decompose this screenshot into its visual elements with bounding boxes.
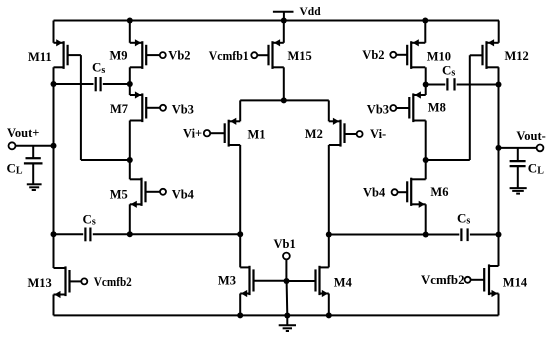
svg-text:Vcmfb2: Vcmfb2 xyxy=(94,275,132,289)
terminal Vcmfb1 xyxy=(251,52,268,58)
svg-text:Vdd: Vdd xyxy=(300,6,322,18)
transistor M7 xyxy=(130,91,146,122)
svg-text:M5: M5 xyxy=(110,188,128,202)
wire: Vb1 node down to rail xyxy=(286,281,289,315)
junction M6 source / Cs bottom line xyxy=(423,232,429,238)
wire: Cs top-right line xyxy=(426,84,499,86)
capacitor Cs (bottom left) xyxy=(85,228,90,242)
wire: M12 gate to cascode node B xyxy=(426,55,483,160)
svg-text:M11: M11 xyxy=(28,50,52,64)
transistor M6 xyxy=(407,178,426,208)
terminal Vcmfb2 (right) xyxy=(465,277,485,283)
wire: M1 drain up to node xyxy=(239,100,241,121)
wire: M15 drain to tail node xyxy=(283,67,285,100)
wire: M5 source down to Cs line xyxy=(129,204,131,234)
junction M2-M4 / Cs bottom-right line xyxy=(326,232,332,238)
transistor M14 xyxy=(484,264,498,297)
svg-text:Vout+: Vout+ xyxy=(7,126,39,140)
terminal Vb3 (left) xyxy=(146,105,166,111)
transistor M3 xyxy=(240,266,253,297)
transistor M10 xyxy=(407,39,425,69)
svg-text:M3: M3 xyxy=(218,274,236,288)
svg-text:M15: M15 xyxy=(288,49,312,63)
wire: M8 drain down to node B xyxy=(425,121,427,180)
wire: Cs top-left line xyxy=(54,83,130,85)
ground (left CL) xyxy=(27,184,42,190)
junction node B (M8/M6) xyxy=(423,157,429,163)
wire: Cs bottom-left line xyxy=(54,233,241,235)
terminal Vb4 (left) xyxy=(146,189,167,195)
transistor M12 xyxy=(483,39,499,69)
wire: M11 gate to cascode node A xyxy=(68,55,130,160)
capacitor Cs (bottom right) xyxy=(461,228,467,241)
terminal Vi+ xyxy=(204,130,225,136)
terminal Vb2 (left) xyxy=(146,52,166,58)
junction M10 source / rail xyxy=(422,18,428,24)
svg-text:Vb4: Vb4 xyxy=(172,187,195,201)
junction left column / Cs bottom line xyxy=(51,231,57,237)
svg-text:M10: M10 xyxy=(427,49,451,63)
wire: left column upper (M11 source to rail) xyxy=(53,21,55,43)
terminal Vout+ xyxy=(9,142,54,149)
wire: M2 source down to M4 xyxy=(328,145,330,267)
wire: M3 source to rail xyxy=(239,294,241,316)
transistor M11 xyxy=(54,39,68,69)
svg-text:M1: M1 xyxy=(248,128,266,142)
svg-text:M2: M2 xyxy=(305,127,323,141)
wire: M4 source to rail xyxy=(328,294,330,316)
svg-text:M9: M9 xyxy=(110,48,128,62)
junction Vb1 / M3-M4 gates xyxy=(284,278,290,284)
transistor M13 xyxy=(54,266,70,298)
terminal Vi- xyxy=(345,131,363,137)
wire: M10 source to rail xyxy=(424,21,426,43)
wire: right column lower (M14 source to rail) xyxy=(498,294,500,316)
junction left column / Cs top line xyxy=(51,81,57,87)
wire: M4 gate to Vb1 node xyxy=(287,280,316,282)
junction left column / Vout+ xyxy=(51,143,57,149)
svg-text:Vb2: Vb2 xyxy=(168,48,190,62)
terminal Vb3 (right) xyxy=(390,105,409,111)
junction M4 source / rail xyxy=(326,312,332,318)
wire: input pair top node xyxy=(240,99,329,101)
svg-text:Vb2: Vb2 xyxy=(362,48,384,62)
svg-text:M14: M14 xyxy=(503,276,528,290)
wire: Vdd top rail xyxy=(54,20,500,22)
junction node A (M7/M5) xyxy=(127,157,133,163)
terminal Vb2 (right) xyxy=(390,52,407,58)
wire: M7 drain down to node A xyxy=(129,121,131,180)
ground (right CL) xyxy=(510,188,527,194)
svg-text:Vi+: Vi+ xyxy=(183,126,202,140)
terminal Vcmfb2 (left) xyxy=(70,278,88,284)
transistor M9 xyxy=(130,39,146,69)
junction right column / Vout- xyxy=(496,145,502,151)
wire: M3 gate to Vb1 node xyxy=(254,280,287,282)
junction M15 drain / input pair node xyxy=(281,97,287,103)
wire: right column (M12 drain down to M14) xyxy=(498,67,500,266)
junction Vdd stub / rail xyxy=(281,18,287,24)
junction M5 source / Cs bottom line xyxy=(127,231,133,237)
wire: M9 source to rail xyxy=(129,21,131,43)
terminal Vb4 (right) xyxy=(392,189,408,195)
junction M10 drain / Cs line xyxy=(423,82,429,88)
svg-text:Vb4: Vb4 xyxy=(363,186,386,200)
ground (center) xyxy=(279,315,296,331)
capacitor CL (left) xyxy=(24,146,43,184)
wire: M10 drain to node xyxy=(425,67,427,95)
svg-text:M6: M6 xyxy=(430,185,448,199)
junction M9 drain / Cs line xyxy=(127,81,133,87)
junction M9 source / rail xyxy=(127,18,133,24)
svg-text:M8: M8 xyxy=(428,101,446,115)
terminal Vb1 xyxy=(283,253,290,281)
wire: left column (M11 drain down to M13) xyxy=(53,67,55,268)
svg-text:Vcmfb2: Vcmfb2 xyxy=(421,273,465,287)
transistor M4 xyxy=(316,266,329,297)
svg-text:Vb1: Vb1 xyxy=(274,237,296,251)
transistor M5 xyxy=(130,178,146,208)
transistor M15 xyxy=(269,39,284,69)
capacitor Cs (top left) xyxy=(96,77,101,91)
svg-text:M12: M12 xyxy=(505,49,529,63)
wire: left column lower (M13 source to rail) xyxy=(53,295,55,316)
junction right column / Cs top line xyxy=(496,82,502,88)
wire: M6 source down to Cs line xyxy=(425,204,427,234)
wire: Cs bottom-right line xyxy=(329,234,499,236)
capacitor CL (right) xyxy=(510,148,526,188)
junction ground stem / rail xyxy=(284,313,290,319)
junction M1-M3 / Cs bottom-left line xyxy=(237,231,243,237)
junction right column / Cs bottom line xyxy=(496,232,502,238)
svg-text:Vi-: Vi- xyxy=(370,127,386,141)
svg-text:M4: M4 xyxy=(334,276,353,290)
svg-text:M7: M7 xyxy=(110,102,128,116)
transistor M1 xyxy=(225,118,241,147)
svg-text:Vb3: Vb3 xyxy=(172,102,194,116)
transistor M2 xyxy=(329,118,345,147)
wire: M9 drain to node xyxy=(129,67,131,95)
svg-text:Vout-: Vout- xyxy=(516,129,545,143)
wire: M1 source down to M3 xyxy=(239,145,241,267)
svg-text:Vcmfb1: Vcmfb1 xyxy=(209,49,249,63)
power Vdd stub xyxy=(273,12,294,21)
wire: right column upper (M12 source to rail) xyxy=(498,21,500,43)
wire: M2 drain up to node xyxy=(328,100,330,121)
svg-text:M13: M13 xyxy=(28,276,52,290)
wire: M15 source to rail xyxy=(283,21,285,43)
terminal Vout- xyxy=(499,145,544,152)
junction M3 source / rail xyxy=(237,312,243,318)
svg-text:Vb3: Vb3 xyxy=(367,103,389,117)
wire: ground bottom rail xyxy=(54,314,499,316)
capacitor Cs (top right) xyxy=(447,78,454,90)
transistor M8 xyxy=(409,91,425,122)
